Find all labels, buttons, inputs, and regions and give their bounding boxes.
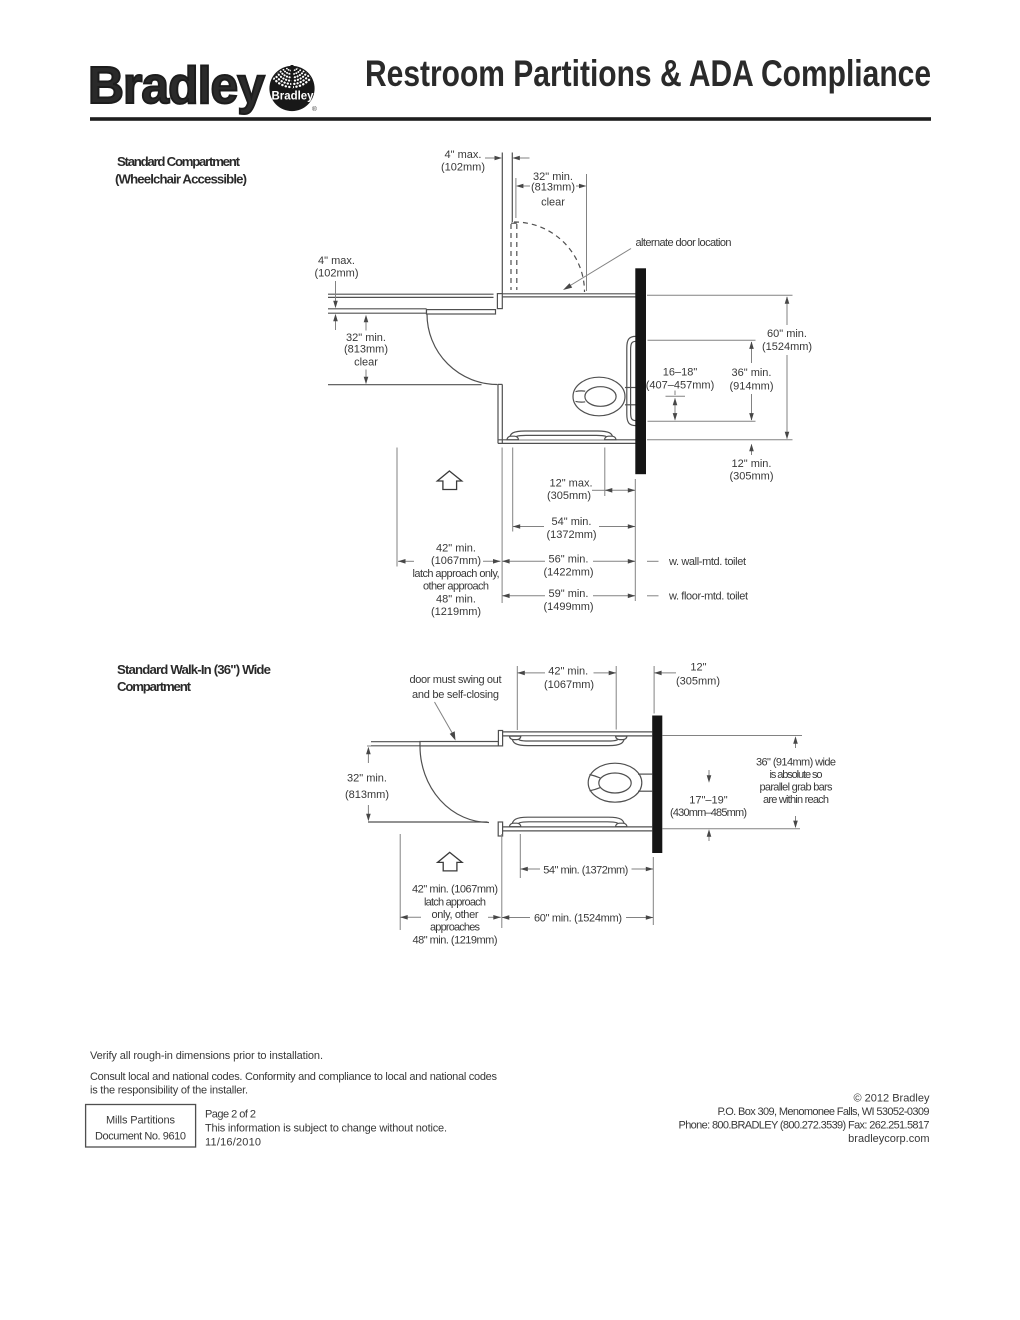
toilet (compartment 1) [573,377,625,416]
extension lines 36" [648,339,756,341]
svg-text:(102mm): (102mm) [441,162,485,174]
svg-text:Compartment: Compartment [117,679,192,694]
dim 32" min arrows (top) [519,185,530,187]
svg-text:32" min.: 32" min. [347,773,387,785]
svg-text:48" min. (1219mm): 48" min. (1219mm) [413,934,498,946]
bottom wall [498,439,636,441]
svg-text:42" min.: 42" min. [548,666,588,678]
svg-text:(813mm): (813mm) [345,789,389,801]
leader to door [435,702,453,734]
svg-text:other approach: other approach [423,581,489,593]
extension 42/48 left (walk-in) [399,834,401,930]
svg-text:54" min.: 54" min. [552,516,592,528]
extension line top right (60") [647,294,793,296]
svg-text:is the responsibility of the i: is the responsibility of the installer. [90,1085,248,1097]
svg-text:(1372mm): (1372mm) [546,529,596,541]
DRAWING 2 [345,662,836,947]
svg-text:w. wall-mtd. toilet: w. wall-mtd. toilet [668,556,746,568]
leader to alternate door [567,249,631,288]
dim 16-18 arrows [674,399,676,420]
top-right wall [502,293,635,295]
extension 54" left (walk-in) [519,834,521,878]
thick rear wall (solid, walk-in) [652,716,662,854]
svg-text:Bradley: Bradley [272,91,315,103]
document number box [86,1105,196,1148]
top extension for 32" [367,745,419,747]
DRAWING 1 [314,149,812,618]
svg-text:Page 2 of 2: Page 2 of 2 [205,1109,256,1121]
svg-text:48" min.: 48" min. [436,593,476,605]
extension line bottom right (60") [647,439,793,441]
svg-text:Bradley: Bradley [88,57,265,115]
svg-text:Standard Walk-In (36") Wide: Standard Walk-In (36") Wide [117,662,271,677]
extension below wall face [634,479,636,601]
top-left room wall [328,293,494,295]
upper pilaster [498,731,502,746]
svg-text:54" min. (1372mm): 54" min. (1372mm) [543,864,628,876]
FOOTER [86,1050,930,1148]
svg-text:bradleycorp.com: bradleycorp.com [848,1133,929,1145]
svg-text:Restroom Partitions & ADA Comp: Restroom Partitions & ADA Compliance [365,53,931,94]
svg-text:Standard Compartment: Standard Compartment [117,154,241,169]
svg-text:clear: clear [354,357,378,369]
top wall [503,731,653,733]
extension right below wall (walk-in) [652,857,654,925]
svg-text:Consult local and national cod: Consult local and national codes. Confor… [90,1071,498,1083]
svg-text:(102mm): (102mm) [314,268,358,280]
svg-text:(813mm): (813mm) [344,344,388,356]
svg-text:60" min. (1524mm): 60" min. (1524mm) [534,913,622,925]
svg-text:only, other: only, other [432,909,479,921]
lower-left vertical wall [497,384,499,443]
svg-text:Mills Partitions: Mills Partitions [106,1114,176,1126]
door leaf (walk-in) [420,742,499,746]
top grab bar [509,736,627,746]
svg-text:This information is subject to: This information is subject to change wi… [205,1123,447,1135]
dim 42" min (top) [516,666,518,730]
svg-text:16–18": 16–18" [663,367,698,379]
dim 60" min vertical [786,297,788,325]
hollow approach arrow [437,471,462,490]
svg-text:(1422mm): (1422mm) [543,567,593,579]
svg-text:latch approach: latch approach [424,896,486,908]
extension below grab bar end [604,448,606,497]
svg-text:56" min.: 56" min. [549,554,589,566]
svg-text:®: ® [312,105,317,113]
dim 32" arrows (walk-in) [367,754,369,764]
door swing arc [420,746,489,823]
svg-text:36" min.: 36" min. [732,367,772,379]
dim 59" min [502,595,545,597]
dim 12" (top) [653,666,655,714]
svg-text:parallel grab bars: parallel grab bars [760,782,834,794]
lower room wall (single line) [328,384,482,386]
dim 60" min (walk-in) [502,917,530,919]
thick rear wall (solid) [635,268,646,474]
lower pilaster [498,822,502,836]
vertical partition panel [501,153,503,295]
toilet wall mounts [625,387,636,389]
bottom grab bar [507,431,616,440]
svg-text:(305mm): (305mm) [547,490,591,502]
dim 54" min (walk-in) [520,868,540,870]
dim 4" left arrows [335,281,337,302]
toilet wall mounts [638,773,652,775]
svg-text:latch approach only,: latch approach only, [413,568,500,580]
dim 32" left arrows [365,322,367,331]
toilet (walk-in) [588,763,642,802]
svg-text:w. floor-mtd. toilet: w. floor-mtd. toilet [668,591,748,603]
svg-text:(914mm): (914mm) [729,381,773,393]
svg-text:(305mm): (305mm) [676,675,720,687]
svg-text:(1219mm): (1219mm) [431,606,481,618]
extension lines 36" wide [663,735,803,737]
dim 17-19 arrows [708,770,710,780]
dim 12" min arrow [751,445,753,456]
svg-text:42" min.: 42" min. [436,543,476,555]
dim 54" min [513,526,544,528]
vertical grab bar on rear wall [627,336,636,425]
extension 42/48 left [396,448,398,567]
svg-text:(430mm–485mm): (430mm–485mm) [670,807,747,819]
left room wall (lower, at door) [328,308,427,310]
svg-text:alternate door location: alternate door location [636,237,732,249]
dim 12" max [592,489,605,491]
svg-text:4" max.: 4" max. [318,255,355,267]
header rule [90,117,931,121]
hollow approach arrow (walk-in) [438,852,463,871]
bottom grab bar (walk-in) [509,817,627,827]
dim 4" max arrows (top) [485,157,495,159]
Bradley globe emblem [268,40,317,113]
svg-text:42" min. (1067mm): 42" min. (1067mm) [412,884,498,896]
svg-text:© 2012 Bradley: © 2012 Bradley [854,1093,930,1105]
extension 60" left (walk-in) [501,834,503,928]
dim 36" wide vertical [795,738,797,749]
svg-text:is absolute so: is absolute so [770,769,823,781]
svg-text:17"–19": 17"–19" [689,795,727,807]
svg-text:12" max.: 12" max. [549,478,592,490]
dashed alternate door swing arc [514,222,585,292]
svg-text:(305mm): (305mm) [729,471,773,483]
svg-text:Document No. 9610: Document No. 9610 [95,1131,186,1143]
svg-text:36" (914mm) wide: 36" (914mm) wide [756,757,836,769]
svg-text:(Wheelchair Accessible): (Wheelchair Accessible) [115,172,247,187]
svg-text:P.O. Box 309, Menomonee Falls,: P.O. Box 309, Menomonee Falls, WI 53052-… [718,1106,930,1118]
svg-text:(1499mm): (1499mm) [543,601,593,613]
svg-text:(813mm): (813mm) [531,182,575,194]
dim 36" min vertical [751,342,753,363]
door leaf (closed) [427,310,496,314]
svg-text:(1067mm): (1067mm) [544,679,594,691]
svg-text:59" min.: 59" min. [549,588,589,600]
extension 56/59 left [501,448,503,604]
svg-text:12" min.: 12" min. [732,458,772,470]
svg-text:60" min.: 60" min. [767,328,807,340]
extension line left (32 top) [515,178,517,218]
svg-text:are within reach: are within reach [763,794,829,806]
svg-text:clear: clear [541,197,565,209]
svg-text:(407–457mm): (407–457mm) [646,380,714,392]
dim 42/48 approach [398,560,414,562]
svg-text:and be self-closing: and be self-closing [412,689,499,701]
dim 56" min [502,560,545,562]
left wall stub (door wall) [371,741,420,743]
dim 42/48 (walk-in) [400,916,421,918]
svg-text:door must swing out: door must swing out [410,674,502,686]
extension line right (32 top) [586,174,588,291]
svg-text:4" max.: 4" max. [445,149,482,161]
svg-text:(1524mm): (1524mm) [762,341,812,353]
bottom wall [503,826,653,828]
svg-text:32" min.: 32" min. [346,332,386,344]
svg-text:(1067mm): (1067mm) [431,555,481,567]
upper pilaster cap [497,294,502,309]
door swing arc [427,314,498,385]
svg-text:11/16/2010: 11/16/2010 [205,1136,261,1148]
toilet centerline tick [674,391,676,396]
dashed alternate door leaf [511,222,517,224]
svg-text:Phone: 800.BRADLEY (800.272.35: Phone: 800.BRADLEY (800.272.3539) Fax: 2… [679,1120,930,1132]
svg-text:Verify all rough-in dimensions: Verify all rough-in dimensions prior to … [90,1050,323,1062]
svg-text:12": 12" [690,662,706,674]
svg-text:approaches: approaches [430,922,481,934]
extension 54" left [512,448,514,532]
lower-left room wall (single) [368,821,488,823]
